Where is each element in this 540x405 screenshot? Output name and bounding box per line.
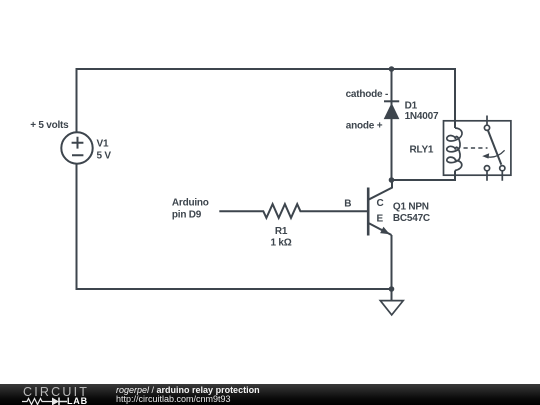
svg-text:RLY1: RLY1	[410, 145, 434, 156]
svg-text:5 V: 5 V	[97, 151, 112, 162]
svg-text:1 kΩ: 1 kΩ	[270, 237, 291, 248]
svg-text:Q1 NPN: Q1 NPN	[393, 202, 429, 213]
svg-text:E: E	[377, 214, 384, 225]
svg-text:BC547C: BC547C	[393, 213, 430, 224]
svg-text:V1: V1	[97, 138, 109, 149]
svg-text:1N4007: 1N4007	[405, 111, 439, 122]
svg-text:anode +: anode +	[346, 121, 383, 132]
svg-text:cathode -: cathode -	[346, 89, 388, 100]
svg-text:Arduino: Arduino	[172, 198, 209, 209]
svg-text:B: B	[344, 198, 351, 209]
svg-text:R1: R1	[275, 226, 288, 237]
svg-text:+ 5 volts: + 5 volts	[30, 120, 69, 131]
svg-text:pin D9: pin D9	[172, 209, 202, 220]
svg-text:D1: D1	[405, 101, 418, 112]
svg-text:C: C	[377, 198, 384, 209]
